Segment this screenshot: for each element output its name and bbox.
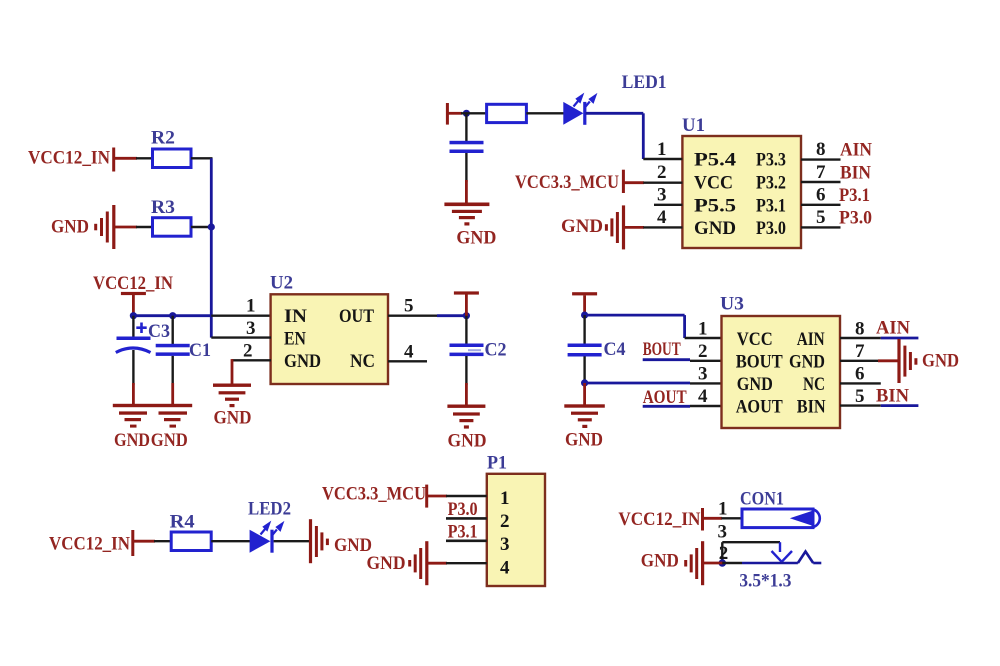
svg-text:R3: R3 xyxy=(151,197,175,218)
ground at U3 pin7 xyxy=(897,339,959,383)
svg-text:5: 5 xyxy=(816,207,826,228)
wire OUT pin5 U2 xyxy=(388,315,466,317)
svg-text:3: 3 xyxy=(718,522,728,543)
svg-text:GND: GND xyxy=(456,228,496,249)
svg-text:BOUT: BOUT xyxy=(736,351,783,372)
svg-text:U2: U2 xyxy=(270,273,293,294)
svg-text:GND: GND xyxy=(114,430,150,451)
ground at LED2 xyxy=(309,519,372,563)
net label AOUT with wire to U3 pin4 xyxy=(643,387,722,408)
capacitor at LED1 net xyxy=(450,113,484,203)
wire U3 pin7 xyxy=(840,360,899,362)
IC U3 xyxy=(720,294,840,429)
svg-text:GND: GND xyxy=(922,351,959,372)
svg-text:P3.1: P3.1 xyxy=(839,185,870,206)
ground at U1 pin4 xyxy=(561,205,644,249)
svg-text:C3: C3 xyxy=(148,321,170,342)
svg-text:3: 3 xyxy=(698,364,708,385)
svg-text:3: 3 xyxy=(657,185,667,206)
ground at P1 pin4 xyxy=(367,541,448,585)
ground under C3 (shared bar) xyxy=(113,404,192,451)
svg-text:EN: EN xyxy=(284,328,306,349)
power stub bar at LED1 net xyxy=(446,103,462,125)
wire U1 pin1 xyxy=(643,158,682,160)
resistor R2 xyxy=(151,128,191,168)
svg-text:VCC3.3_MCU: VCC3.3_MCU xyxy=(515,172,619,193)
svg-text:1: 1 xyxy=(500,488,510,509)
svg-text:BIN: BIN xyxy=(840,163,871,184)
power port VCC12_IN at U2 input xyxy=(93,273,173,316)
svg-text:VCC: VCC xyxy=(694,173,733,194)
svg-text:P5.5: P5.5 xyxy=(694,195,736,216)
svg-text:CON1: CON1 xyxy=(740,489,784,510)
wire U1 pin6 xyxy=(801,204,841,206)
wire VCC net to U3 pin1 xyxy=(585,315,722,338)
wire U3 pin5 with net stub BIN xyxy=(840,404,918,406)
power stub above C2 xyxy=(454,291,479,316)
svg-text:VCC12_IN: VCC12_IN xyxy=(49,534,130,555)
svg-text:5: 5 xyxy=(855,386,865,407)
svg-text:GND: GND xyxy=(448,431,487,452)
svg-text:GND: GND xyxy=(789,351,825,372)
svg-text:AOUT: AOUT xyxy=(643,387,687,408)
svg-text:GND: GND xyxy=(565,430,603,451)
svg-text:3: 3 xyxy=(246,318,256,339)
junction at C1 xyxy=(169,312,176,319)
svg-text:VCC: VCC xyxy=(737,329,773,350)
wire CON1 pin1 xyxy=(721,517,742,519)
net label P3.1 with wire to P1 pin3 xyxy=(446,522,487,543)
wire U3 pin8 with net stub AIN xyxy=(840,337,918,339)
LED LED2 xyxy=(248,499,291,553)
wire junction to resistor xyxy=(461,112,487,114)
svg-text:VCC12_IN: VCC12_IN xyxy=(93,273,173,294)
svg-text:8: 8 xyxy=(816,139,826,160)
junction node at R3 xyxy=(208,223,215,230)
wire R3 to junction xyxy=(191,226,211,228)
wire R4 to LED2 xyxy=(211,540,250,542)
svg-text:AIN: AIN xyxy=(876,318,910,339)
IC P1 connector xyxy=(487,453,545,587)
svg-text:VCC12_IN: VCC12_IN xyxy=(618,509,700,530)
wire to R3 xyxy=(136,226,153,228)
svg-text:GND: GND xyxy=(284,351,321,372)
svg-text:7: 7 xyxy=(816,162,826,183)
svg-text:IN: IN xyxy=(284,306,307,327)
svg-text:P3.0: P3.0 xyxy=(448,499,478,520)
wire to R4 xyxy=(154,540,172,542)
svg-text:P5.4: P5.4 xyxy=(694,150,737,171)
junction at C4 bottom xyxy=(581,379,588,386)
svg-text:R2: R2 xyxy=(151,128,175,149)
svg-text:GND: GND xyxy=(694,218,736,239)
wire GND pin2 U2 xyxy=(232,359,271,384)
svg-text:NC: NC xyxy=(803,374,825,395)
switch contact CON1 pin3 xyxy=(722,542,792,563)
svg-text:VCC3.3_MCU: VCC3.3_MCU xyxy=(322,484,426,505)
svg-text:GND: GND xyxy=(334,535,372,556)
svg-text:P3.1: P3.1 xyxy=(756,195,786,216)
svg-text:2: 2 xyxy=(500,511,510,532)
net label P3.0 with wire to P1 pin2 xyxy=(446,499,487,520)
junction at LED1 net xyxy=(463,110,470,117)
wire R2 to vertical net xyxy=(191,157,213,159)
wire U1 pin3 xyxy=(654,204,682,206)
svg-text:1: 1 xyxy=(246,296,256,317)
wire P1 pin1 xyxy=(446,495,487,497)
svg-text:6: 6 xyxy=(816,185,826,206)
power stub at U3 VCC xyxy=(572,292,597,315)
connector CON1 barrel xyxy=(740,489,820,528)
wire U1 pin5 xyxy=(801,226,841,228)
wire U1 pin2 xyxy=(643,181,682,183)
ground GND at R3 xyxy=(51,205,137,249)
svg-text:C4: C4 xyxy=(604,339,626,360)
svg-text:OUT: OUT xyxy=(339,306,374,327)
ground at U2 pin2 xyxy=(213,384,252,429)
svg-text:3: 3 xyxy=(500,534,510,555)
ground under C1 xyxy=(151,411,188,451)
svg-text:GND: GND xyxy=(641,551,679,572)
resistor R3 xyxy=(151,197,191,236)
svg-text:GND: GND xyxy=(561,216,603,237)
svg-text:C1: C1 xyxy=(189,340,211,361)
capacitor C2 xyxy=(450,316,507,406)
svg-text:1: 1 xyxy=(718,499,728,520)
wire U3 pin6 xyxy=(840,382,881,384)
svg-text:C2: C2 xyxy=(485,340,507,361)
LED LED1 xyxy=(563,72,666,125)
svg-text:NC: NC xyxy=(350,351,375,372)
svg-text:U1: U1 xyxy=(682,115,705,136)
svg-text:P3.1: P3.1 xyxy=(448,522,478,543)
svg-text:6: 6 xyxy=(855,364,865,385)
svg-text:5: 5 xyxy=(404,296,414,317)
IC U2 xyxy=(270,273,388,385)
wire resistor to LED1 xyxy=(526,112,563,114)
capacitor C1 xyxy=(156,316,211,405)
svg-text:R4: R4 xyxy=(170,512,196,533)
svg-text:4: 4 xyxy=(500,558,510,579)
svg-text:2: 2 xyxy=(657,162,667,183)
svg-text:U3: U3 xyxy=(720,294,744,315)
ground under C4 xyxy=(564,383,605,451)
junction at C3 xyxy=(130,312,137,319)
wire VCC net to U2 pin1 (navy part) xyxy=(133,314,211,317)
resistor R4 xyxy=(170,512,212,551)
power port VCC12_IN top-left xyxy=(28,148,137,172)
svg-text:3.5*1.3: 3.5*1.3 xyxy=(739,571,791,592)
junction at OUT net xyxy=(463,312,470,319)
svg-text:LED2: LED2 xyxy=(248,499,291,520)
resistor (LED1 series) xyxy=(487,104,527,122)
svg-text:1: 1 xyxy=(698,319,708,340)
svg-text:8: 8 xyxy=(855,319,865,340)
svg-text:AIN: AIN xyxy=(840,140,872,161)
svg-text:4: 4 xyxy=(404,342,414,363)
svg-text:P3.0: P3.0 xyxy=(839,208,872,229)
svg-text:P1: P1 xyxy=(487,453,507,474)
svg-text:BIN: BIN xyxy=(876,386,909,407)
wire EN pin3 U2 xyxy=(211,336,271,338)
wire pin1 U2 (black part) xyxy=(211,315,271,317)
svg-text:P3.2: P3.2 xyxy=(756,173,786,194)
svg-text:2: 2 xyxy=(243,341,253,362)
net label BOUT with wire to U3 pin2 xyxy=(643,339,722,361)
junction at CON1 sleeve xyxy=(719,559,727,567)
sleeve wire CON1 pin2 with bump xyxy=(703,552,822,564)
svg-text:AOUT: AOUT xyxy=(736,396,783,417)
svg-text:BIN: BIN xyxy=(797,396,826,417)
svg-text:4: 4 xyxy=(698,386,708,407)
IC U1 xyxy=(682,115,801,248)
svg-text:GND: GND xyxy=(367,553,406,574)
wire GND net to U3 pin3 xyxy=(585,382,722,385)
wire P1 pin4 xyxy=(446,562,487,564)
svg-text:P3.3: P3.3 xyxy=(756,150,786,171)
ground at CON1 xyxy=(641,541,704,585)
wire U1 pin8 xyxy=(801,158,841,160)
power port VCC12_IN at CON1 xyxy=(618,508,722,531)
svg-text:VCC12_IN: VCC12_IN xyxy=(28,148,110,169)
svg-text:BOUT: BOUT xyxy=(643,339,681,360)
wire vertical net R2/R3 to U2 EN xyxy=(210,158,213,337)
svg-text:1: 1 xyxy=(657,139,667,160)
ground under C2 xyxy=(447,405,486,452)
svg-text:AIN: AIN xyxy=(797,329,825,350)
power port VCC3.3_MCU at U1 xyxy=(515,170,644,193)
capacitor C4 xyxy=(568,315,626,383)
svg-text:P3.0: P3.0 xyxy=(756,218,786,239)
wire U1 pin7 xyxy=(801,181,841,183)
capacitor C3 (polarized) xyxy=(116,316,170,405)
power port VCC3.3_MCU at P1 xyxy=(322,484,447,508)
wire U1 pin4 xyxy=(643,226,682,228)
svg-text:LED1: LED1 xyxy=(622,72,667,93)
svg-text:GND: GND xyxy=(737,374,773,395)
svg-text:GND: GND xyxy=(51,217,89,238)
wire to R2 xyxy=(136,157,153,159)
wire LED2 to ground xyxy=(274,540,311,542)
svg-text:GND: GND xyxy=(214,408,252,429)
svg-text:2: 2 xyxy=(698,341,708,362)
wire NC pin4 U2 xyxy=(388,360,427,362)
wire LED1 to U1 pin1 xyxy=(586,113,644,159)
junction at C4 top xyxy=(581,312,588,319)
svg-text:7: 7 xyxy=(855,341,865,362)
power port VCC12_IN at LED2 xyxy=(49,530,155,556)
svg-text:4: 4 xyxy=(657,207,667,228)
svg-text:GND: GND xyxy=(151,430,188,451)
ground under LED1 cap xyxy=(444,203,496,249)
